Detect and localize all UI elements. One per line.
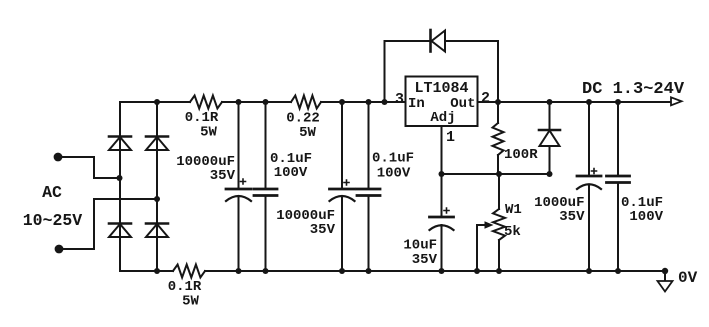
capacitor C4 0.1uF 100V branch — [368, 102, 370, 271]
capacitor C2 0.1uF 100V branch — [265, 102, 267, 271]
wire bottom rail main segment — [205, 270, 665, 272]
resistor R4 100R branch — [497, 102, 499, 174]
node C6 top — [586, 99, 592, 105]
label C6 value 1000uF 35V — [534, 195, 585, 225]
wire Adj pin 1 — [441, 126, 443, 174]
svg-text:1: 1 — [446, 129, 455, 146]
diode D5 protection across regulator — [429, 30, 432, 52]
node C3 top — [339, 99, 345, 105]
diode D2 bridge top-right — [146, 135, 168, 138]
node C1 bottom — [236, 268, 242, 274]
node bridge left AC junction — [117, 175, 123, 181]
svg-text:35V: 35V — [559, 209, 585, 225]
node C5 bottom — [439, 268, 445, 274]
diode D1 bridge top-left — [109, 135, 131, 138]
node right column bottom — [154, 268, 160, 274]
node bridge right AC junction — [154, 196, 160, 202]
wire bridge right column — [156, 102, 158, 271]
DC output arrow terminal — [671, 97, 682, 105]
label C3 value 10000uF 35V — [276, 208, 335, 238]
node C6 bottom — [586, 268, 592, 274]
svg-text:5W: 5W — [299, 125, 316, 141]
svg-text:100V: 100V — [629, 209, 663, 225]
svg-text:DC 1.3~24V: DC 1.3~24V — [582, 80, 685, 99]
label AC input — [23, 183, 83, 230]
svg-text:35V: 35V — [310, 222, 336, 238]
svg-text:3: 3 — [395, 91, 404, 108]
svg-text:AC: AC — [42, 183, 62, 202]
svg-text:0V: 0V — [678, 269, 698, 287]
resistor R1 0.1R 5W (top) — [190, 96, 222, 109]
svg-text:0.1uF: 0.1uF — [372, 151, 414, 167]
capacitor C5 10uF 35V branch — [441, 174, 443, 271]
plus sign C1 — [241, 179, 246, 184]
diode D4 bridge bottom-right — [146, 222, 168, 225]
node C7 top — [615, 99, 621, 105]
capacitor C3 10000uF 35V branch — [341, 102, 343, 271]
wire AC top terminal to bridge — [58, 157, 120, 178]
svg-text:2: 2 — [481, 90, 490, 107]
svg-text:LT1084: LT1084 — [414, 80, 468, 97]
svg-text:35V: 35V — [412, 252, 438, 268]
label R3 value 0.1R 5W — [168, 279, 202, 310]
svg-text:5W: 5W — [200, 125, 217, 141]
node C4 top — [366, 99, 372, 105]
wire top rail left segment — [120, 101, 190, 103]
node C2 top — [263, 99, 269, 105]
svg-text:W1: W1 — [505, 202, 522, 218]
wire output rail from pin 2 to DC arrow — [478, 101, 673, 103]
resistor R2 0.22 5W — [291, 96, 321, 109]
0V terminal — [664, 271, 666, 281]
capacitor C1 10000uF 35V branch — [238, 102, 240, 271]
svg-text:5k: 5k — [504, 224, 521, 240]
node AC terminal top — [54, 153, 63, 162]
potentiometer W1 5k — [498, 174, 500, 271]
node C1 top — [236, 99, 242, 105]
svg-text:Adj: Adj — [430, 110, 455, 126]
node right column top — [154, 99, 160, 105]
plus sign C6 — [592, 169, 597, 174]
wire bridge left column — [119, 102, 121, 271]
diode D6 adj-to-output branch — [549, 102, 551, 174]
node C2 bottom — [263, 268, 269, 274]
label C7 value 0.1uF 100V — [621, 195, 664, 225]
label C4 value 0.1uF 100V — [372, 151, 414, 182]
svg-text:100V: 100V — [377, 166, 411, 182]
wire protection diode loop — [385, 41, 499, 102]
label C5 value 10uF 35V — [403, 238, 437, 269]
node diode loop left — [382, 99, 388, 105]
svg-text:In: In — [408, 96, 425, 112]
node diode loop right / R4 top — [495, 99, 501, 105]
plus sign C3 — [344, 180, 349, 185]
wire top rail from R2 to regulator In pin 3 — [321, 101, 406, 103]
svg-text:35V: 35V — [210, 168, 236, 184]
svg-text:5W: 5W — [182, 294, 199, 310]
label C2 value 0.1uF 100V — [270, 151, 312, 181]
node C4 bottom — [366, 268, 372, 274]
wire top rail between R1 and R2 — [222, 101, 291, 103]
wire AC bottom terminal to bridge — [59, 199, 157, 249]
node adj pin1 junction — [439, 171, 445, 177]
node C7 bottom — [615, 268, 621, 274]
resistor R3 0.1R 5W (bottom) — [173, 265, 205, 278]
svg-text:100R: 100R — [504, 147, 538, 163]
plus sign C5 — [444, 208, 449, 213]
node adj R4/W1 junction — [496, 171, 502, 177]
label C1 value 10000uF 35V — [176, 154, 235, 184]
capacitor C7 0.1uF 100V branch — [617, 102, 619, 271]
svg-text:100V: 100V — [274, 165, 308, 181]
node 0V rail end — [662, 268, 668, 274]
wire adjust node line — [442, 173, 551, 175]
node D6 top — [547, 99, 553, 105]
regulator U1 LT1084 box — [406, 77, 478, 127]
diode D3 bridge bottom-left — [109, 222, 131, 225]
node C3 bottom — [339, 268, 345, 274]
wire W1 wiper — [477, 225, 486, 271]
capacitor C6 1000uF 35V branch — [588, 102, 590, 271]
svg-text:10~25V: 10~25V — [23, 211, 83, 230]
node W1 bottom — [496, 268, 502, 274]
node wiper bottom — [474, 268, 480, 274]
node AC terminal bottom — [55, 245, 64, 254]
node adj D6 junction — [547, 171, 553, 177]
label R1 value 0.1R 5W — [185, 110, 219, 141]
wire bottom rail left segment — [120, 270, 173, 272]
label R2 value 0.22 5W — [286, 111, 320, 142]
